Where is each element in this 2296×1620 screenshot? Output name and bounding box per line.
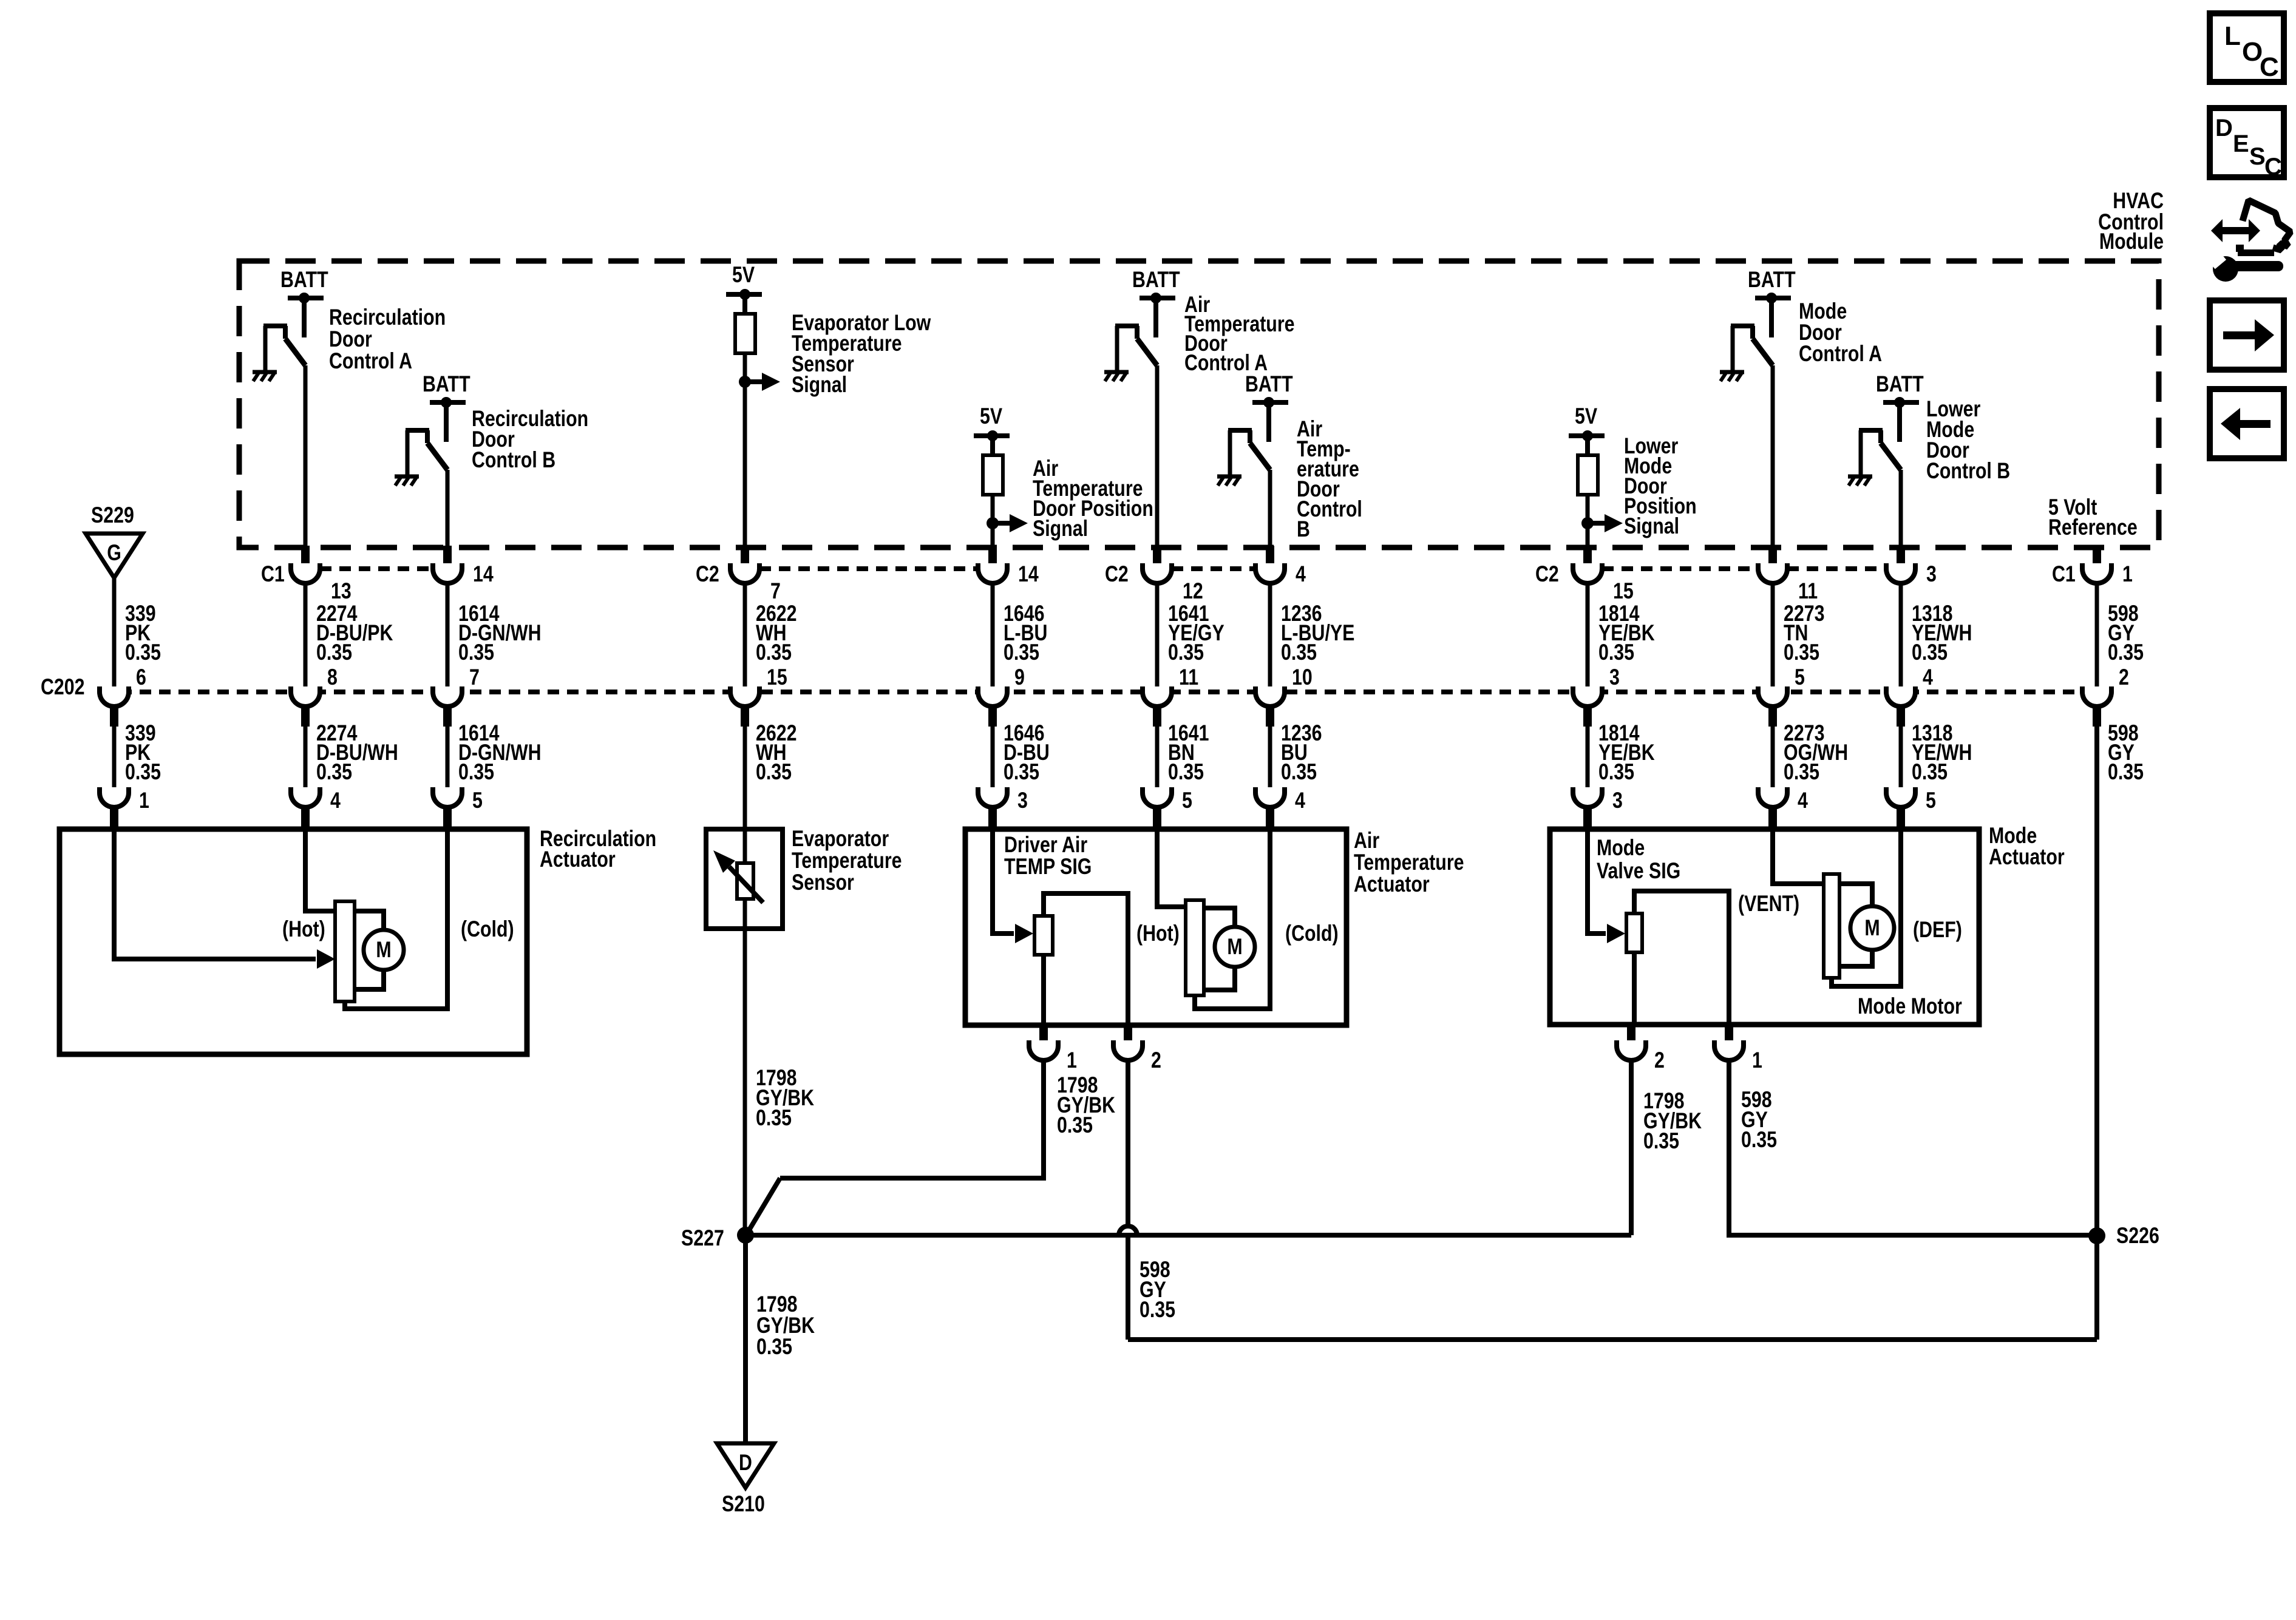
svg-text:BATT: BATT [1245, 371, 1293, 397]
svg-text:M: M [376, 937, 391, 963]
wire mode motor loop bottom [1840, 950, 1872, 966]
wire segment below C202 x=2920 [1771, 725, 1775, 793]
svg-text:15: 15 [767, 665, 787, 690]
svg-text:D: D [2215, 115, 2233, 141]
svg-text:Valve SIG: Valve SIG [1597, 858, 1680, 884]
connector terminal row3 x=1635 [978, 787, 1007, 807]
svg-text:9: 9 [1014, 665, 1025, 690]
wire segment row1-row2 x=1227 [743, 583, 747, 692]
svg-text:3: 3 [1926, 561, 1937, 587]
svg-text:3: 3 [1612, 788, 1623, 813]
connector terminal row3 x=3131 [1886, 787, 1915, 807]
svg-text:0.35: 0.35 [125, 759, 161, 785]
connector pin stub below C202 x=1635 [988, 705, 997, 727]
svg-text:C1: C1 [2052, 561, 2076, 587]
wire segment row1-row2 x=1635 [991, 583, 995, 692]
svg-text:0.35: 0.35 [1741, 1127, 1777, 1153]
wire segment below C202 x=1906 [1155, 725, 1160, 793]
junction S227 [737, 1227, 754, 1244]
svg-text:M: M [1864, 915, 1880, 941]
icon box DESC [2210, 108, 2284, 177]
connector terminal row1 x=737 [433, 563, 462, 583]
svg-text:S: S [2249, 143, 2266, 170]
connector terminal C202 x=188 [100, 686, 129, 707]
svg-text:0.35: 0.35 [1168, 640, 1204, 665]
icon box LOC [2210, 13, 2284, 82]
wire segment below C202 x=2615 [1586, 725, 1590, 793]
svg-text:Actuator: Actuator [1354, 872, 1430, 897]
wire mode pin2 down [1629, 1060, 1634, 1235]
connector pin stub into box x=2920 [1768, 806, 1777, 830]
svg-text:0.35: 0.35 [1004, 759, 1039, 785]
svg-text:2: 2 [1654, 1048, 1665, 1073]
wire S227 down to ground [743, 1235, 748, 1443]
svg-text:4: 4 [1295, 788, 1305, 813]
ground D S210 triangle [717, 1443, 774, 1488]
svg-text:S210: S210 [722, 1491, 765, 1517]
svg-text:1: 1 [139, 788, 149, 813]
connector pin stub into box x=1906 [1153, 806, 1161, 830]
wire segment below C202 x=503 [304, 725, 308, 793]
svg-text:Sensor: Sensor [792, 870, 854, 895]
connector terminal row1 x=2920 [1758, 563, 1787, 583]
svg-text:5V: 5V [980, 404, 1002, 429]
connector terminal row3 x=2092 [1255, 787, 1285, 807]
connector terminal C202 x=3131 [1886, 686, 1915, 707]
wire mode SIG pot top to pin1 [1634, 891, 1729, 1025]
svg-text:12: 12 [1183, 578, 1203, 604]
svg-text:0.35: 0.35 [756, 640, 792, 665]
svg-text:(Cold): (Cold) [461, 917, 514, 942]
wire segment below C202 x=2092 [1268, 725, 1272, 793]
wire segment row1-row2 x=2615 [1586, 583, 1590, 692]
svg-text:BATT: BATT [1748, 267, 1796, 293]
svg-text:C2: C2 [1105, 561, 1129, 587]
svg-text:BATT: BATT [1876, 371, 1924, 397]
dotted connector line row C1/C2 segment 2944-3107 [1787, 566, 1886, 571]
connector pin stub into box x=188 [110, 806, 118, 830]
svg-text:14: 14 [473, 561, 494, 587]
wire segment row1-row2 x=3454 [2095, 583, 2099, 692]
svg-text:10: 10 [1292, 665, 1313, 690]
svg-text:0.35: 0.35 [756, 759, 792, 785]
connector pin stub below C202 x=2092 [1266, 705, 1274, 727]
connector pin stub row1 x=1227 [741, 546, 749, 569]
svg-text:4: 4 [1798, 788, 1808, 813]
svg-text:5V: 5V [732, 262, 755, 288]
connector pin stub below C202 x=2920 [1768, 705, 1777, 727]
connector terminal row4 x=1719 [1029, 1040, 1058, 1060]
motor M recirc [364, 930, 404, 970]
wire 5V ref column to S226 and down [2094, 725, 2099, 1340]
svg-text:11: 11 [1798, 578, 1818, 604]
svg-text:C1: C1 [261, 561, 285, 587]
svg-text:0.35: 0.35 [316, 759, 352, 785]
svg-text:Control A: Control A [1799, 341, 1882, 367]
potentiometer mode motor [1824, 874, 1839, 978]
svg-text:BATT: BATT [1132, 267, 1180, 293]
wire recirc pin4 to pot top [305, 829, 335, 911]
potentiometer air motor [1186, 900, 1204, 995]
svg-text:0.35: 0.35 [2108, 640, 2144, 665]
wire segment row1-row2 x=2920 [1771, 583, 1775, 692]
connector pin stub below box x=2687 [1627, 1025, 1635, 1046]
svg-text:15: 15 [1613, 578, 1634, 604]
wire segment row1-row2 x=1906 [1155, 583, 1160, 692]
svg-text:Actuator: Actuator [540, 847, 616, 872]
ground G S229 triangle [86, 534, 143, 578]
icon box arrow left [2210, 389, 2284, 458]
dotted connector line row C1/C2 segment 2639-2896 [1602, 566, 1758, 571]
connector terminal C202 x=1906 [1143, 686, 1172, 707]
svg-text:0.35: 0.35 [1598, 759, 1634, 785]
connector pin stub row1 x=737 [443, 546, 452, 569]
svg-text:Control A: Control A [329, 348, 412, 374]
svg-text:4: 4 [1296, 561, 1306, 587]
svg-text:0.35: 0.35 [756, 1105, 792, 1131]
connector terminal row1 x=3131 [1886, 563, 1915, 583]
wire 598 GY horizontal to S226 corner [1128, 1337, 2097, 1342]
svg-text:1: 1 [1752, 1048, 1762, 1073]
wire air pin2 down with hop over trunk [1126, 1060, 1130, 1227]
connector terminal row1 x=1227 [730, 563, 759, 583]
connector terminal row3 x=188 [100, 787, 129, 807]
svg-text:0.35: 0.35 [1643, 1128, 1679, 1154]
svg-text:0.35: 0.35 [458, 759, 494, 785]
connector pin stub below C202 x=3131 [1897, 705, 1905, 727]
connector pin stub below C202 x=503 [301, 705, 310, 727]
potentiometer Mode Valve SIG [1626, 913, 1642, 952]
svg-text:4: 4 [330, 788, 341, 813]
svg-text:C: C [2264, 154, 2282, 180]
connector pin stub row1 x=1906 [1153, 546, 1161, 569]
Air Temperature Actuator box [965, 829, 1347, 1025]
wire segment below C202 x=737 [446, 725, 450, 793]
connector pin stub row1 x=503 [301, 546, 310, 569]
svg-text:3: 3 [1017, 788, 1028, 813]
connector terminal row4 x=2848 [1714, 1040, 1744, 1060]
svg-text:0.35: 0.35 [1168, 759, 1204, 785]
connector terminal C202 x=2092 [1255, 686, 1285, 707]
svg-text:(Cold): (Cold) [1285, 921, 1339, 946]
wire mode pot bottom to pin5 [1832, 829, 1901, 986]
svg-text:(DEF): (DEF) [1913, 917, 1962, 943]
icon diagnostic double-arrow [2211, 219, 2260, 242]
svg-text:13: 13 [331, 578, 352, 604]
svg-text:0.35: 0.35 [125, 640, 161, 665]
svg-text:7: 7 [469, 665, 480, 690]
connector terminal C202 x=737 [433, 686, 462, 707]
svg-text:5: 5 [472, 788, 483, 813]
connector pin stub row1 x=2092 [1266, 546, 1274, 569]
connector terminal row1 x=2092 [1255, 563, 1285, 583]
connector terminal C202 x=503 [291, 686, 320, 707]
svg-text:1: 1 [1067, 1048, 1077, 1073]
wire mode pin4 to pot [1773, 829, 1824, 884]
motor M mode [1850, 906, 1894, 950]
svg-text:5: 5 [1182, 788, 1192, 813]
connector pin stub row1 x=1635 [988, 546, 997, 569]
connector pin stub into box x=503 [301, 806, 310, 830]
connector pin stub row1 x=2920 [1768, 546, 1777, 569]
svg-text:2: 2 [2119, 665, 2129, 690]
svg-text:2: 2 [1151, 1048, 1161, 1073]
connector terminal row4 x=1858 [1113, 1040, 1143, 1060]
svg-text:Control B: Control B [1926, 458, 2010, 484]
dotted connector line row C1/C2 segment 1930-2068 [1172, 566, 1255, 571]
svg-text:C2: C2 [696, 561, 719, 587]
svg-text:8: 8 [327, 665, 338, 690]
svg-text:BATT: BATT [280, 267, 328, 293]
svg-text:TEMP SIG: TEMP SIG [1004, 854, 1092, 879]
wire segment row1-row2 x=3131 [1899, 583, 1903, 692]
wire recirc pot bottom to pin5 [345, 829, 447, 1009]
connector pin stub row1 x=2615 [1583, 546, 1592, 569]
connector terminal C202 x=2615 [1573, 686, 1602, 707]
junction S226 [2088, 1227, 2105, 1244]
wire air pin1 to S227 [780, 1060, 1044, 1178]
wire segment row1-row2 x=2092 [1268, 583, 1272, 692]
svg-text:(Hot): (Hot) [1136, 921, 1180, 946]
svg-text:S226: S226 [2116, 1223, 2159, 1249]
connector terminal C202 x=2920 [1758, 686, 1787, 707]
connector terminal row3 x=737 [433, 787, 462, 807]
svg-text:0.35: 0.35 [1784, 759, 1819, 785]
wire segment below C202 x=1635 [991, 725, 995, 793]
connector pin stub into box x=737 [443, 806, 452, 830]
svg-text:D: D [739, 1450, 752, 1476]
connector pin stub row1 x=3131 [1897, 546, 1905, 569]
svg-text:5: 5 [1926, 788, 1936, 813]
svg-text:M: M [1227, 934, 1242, 960]
connector terminal row3 x=2615 [1573, 787, 1602, 807]
svg-text:Control B: Control B [472, 447, 555, 473]
svg-text:5: 5 [1795, 665, 1805, 690]
svg-text:0.35: 0.35 [316, 640, 352, 665]
wire air pin5 to pot [1157, 829, 1186, 907]
motor M air [1215, 927, 1255, 967]
svg-text:Module: Module [2099, 229, 2164, 254]
wire segment row1-row2 x=503 [304, 583, 308, 692]
icon box arrow right [2210, 300, 2284, 370]
thermistor element evap [737, 863, 753, 899]
connector terminal row3 x=2920 [1758, 787, 1787, 807]
svg-text:Signal: Signal [1033, 516, 1088, 541]
svg-text:C2: C2 [1535, 561, 1559, 587]
Mode Actuator box [1550, 829, 1979, 1025]
svg-text:Actuator: Actuator [1989, 844, 2065, 870]
svg-text:Reference: Reference [2048, 515, 2138, 540]
svg-text:Mode Motor: Mode Motor [1858, 994, 1962, 1019]
svg-text:0.35: 0.35 [1598, 640, 1634, 665]
connector terminal C202 x=3454 [2082, 686, 2111, 707]
icon diagnostic zigzag outline [2243, 200, 2291, 250]
Evaporator Temperature Sensor box [706, 829, 783, 929]
wire air pin3 to wiper arrow [993, 829, 1014, 934]
dotted connector line row C202 [101, 690, 2082, 694]
svg-text:14: 14 [1018, 561, 1039, 587]
svg-text:4: 4 [1923, 665, 1933, 690]
svg-text:0.35: 0.35 [1281, 640, 1317, 665]
potentiometer recirc [335, 901, 355, 1001]
connector pin stub below C202 x=1227 [741, 705, 749, 727]
connector terminal row4 x=2687 [1617, 1040, 1646, 1060]
connector terminal row3 x=503 [291, 787, 320, 807]
svg-text:C: C [2260, 52, 2279, 82]
svg-text:0.35: 0.35 [1281, 759, 1317, 785]
connector pin stub below C202 x=188 [110, 705, 118, 727]
wire through evap sensor [743, 829, 747, 929]
wire mode SIG pot bottom to pin2 [1632, 952, 1637, 1025]
svg-text:(VENT): (VENT) [1738, 891, 1799, 917]
wire trunk S227 to mode pin2 [746, 1233, 1631, 1238]
wire TEMP SIG pot top to pin2 [1044, 893, 1128, 1025]
svg-text:0.35: 0.35 [1140, 1297, 1175, 1323]
dotted connector line row C1/C2 segment 527-713 [320, 566, 433, 571]
svg-text:1: 1 [2122, 561, 2133, 587]
connector pin stub into box x=3131 [1897, 806, 1905, 830]
svg-text:3: 3 [1609, 665, 1620, 690]
wire segment below C202 x=188 [112, 725, 117, 793]
svg-text:0.35: 0.35 [1004, 640, 1039, 665]
connector pin stub below box x=1719 [1039, 1025, 1048, 1046]
svg-text:Signal: Signal [792, 372, 847, 398]
connector pin stub below C202 x=737 [443, 705, 452, 727]
wire air motor loop bottom [1204, 966, 1235, 990]
wire evap sensor to S227 [743, 929, 747, 1235]
svg-text:G: G [107, 540, 121, 566]
svg-text:Mode: Mode [1597, 835, 1645, 861]
svg-text:0.35: 0.35 [1784, 640, 1819, 665]
svg-text:0.35: 0.35 [756, 1334, 792, 1360]
svg-text:Signal: Signal [1624, 513, 1679, 539]
svg-text:S229: S229 [91, 503, 134, 528]
connector pin stub into box x=2615 [1583, 806, 1592, 830]
wire mode pot to motor loop top [1839, 884, 1872, 906]
svg-text:L: L [2224, 21, 2241, 51]
connector terminal row1 x=3454 [2082, 563, 2111, 583]
connector terminal C202 x=1227 [730, 686, 759, 707]
svg-text:5V: 5V [1575, 404, 1597, 429]
HVAC Control Module dashed boundary box [239, 261, 2159, 547]
connector pin stub row1 x=3454 [2093, 546, 2101, 569]
connector terminal C202 x=1635 [978, 686, 1007, 707]
svg-text:0.35: 0.35 [1912, 759, 1948, 785]
wire recirc pin1 to wiper arrow [114, 829, 316, 959]
wire recirc pot to motor loop top [355, 911, 384, 930]
Recirculation Actuator box [59, 829, 527, 1054]
svg-text:BATT: BATT [423, 371, 470, 397]
icon wrench [2213, 256, 2238, 282]
thermistor arrow evap [729, 867, 763, 903]
svg-text:6: 6 [136, 665, 146, 690]
svg-text:B: B [1297, 517, 1310, 542]
connector terminal row3 x=1906 [1143, 787, 1172, 807]
connector pin stub below box x=2848 [1725, 1025, 1733, 1046]
connector pin stub into box x=2092 [1266, 806, 1274, 830]
svg-text:0.35: 0.35 [2108, 759, 2144, 785]
wire mode pin3 to wiper arrow [1588, 829, 1606, 934]
connector pin stub into box x=1635 [988, 806, 997, 830]
connector pin stub below C202 x=2615 [1583, 705, 1592, 727]
wire recirc motor loop bottom [355, 969, 384, 989]
connector terminal row1 x=503 [291, 563, 320, 583]
wire segment below C202 x=3454 [2095, 725, 2099, 1235]
wire segment row1-row2 x=188 [112, 578, 117, 692]
connector terminal row1 x=2615 [1573, 563, 1602, 583]
connector terminal row1 x=1635 [978, 563, 1007, 583]
svg-text:C202: C202 [41, 674, 85, 700]
svg-text:0.35: 0.35 [1057, 1113, 1093, 1138]
wire segment below C202 x=1227 [743, 725, 747, 829]
connector pin stub below box x=1858 [1124, 1025, 1132, 1046]
dotted connector line row C1/C2 segment 1251-1611 [759, 566, 978, 571]
connector pin stub below C202 x=1906 [1153, 705, 1161, 727]
potentiometer TEMP SIG air [1034, 916, 1053, 955]
svg-text:7: 7 [770, 578, 781, 604]
svg-text:S227: S227 [681, 1225, 724, 1251]
wire segment below C202 x=3131 [1899, 725, 1903, 793]
wire TEMP SIG pot bottom to pin1 [1041, 955, 1046, 1025]
svg-text:11: 11 [1179, 665, 1198, 690]
svg-text:0.35: 0.35 [1912, 640, 1948, 665]
wire air pot to motor loop top [1204, 908, 1235, 927]
svg-text:E: E [2233, 130, 2249, 157]
svg-text:0.35: 0.35 [458, 640, 494, 665]
wire mode pin1 down to S226 [1729, 1060, 2097, 1235]
wire segment row1-row2 x=737 [446, 583, 450, 692]
connector pin stub below C202 x=3454 [2093, 705, 2101, 727]
svg-text:(Hot): (Hot) [282, 917, 325, 942]
connector terminal row1 x=1906 [1143, 563, 1172, 583]
wire air pot bottom to pin4 [1195, 829, 1270, 1009]
